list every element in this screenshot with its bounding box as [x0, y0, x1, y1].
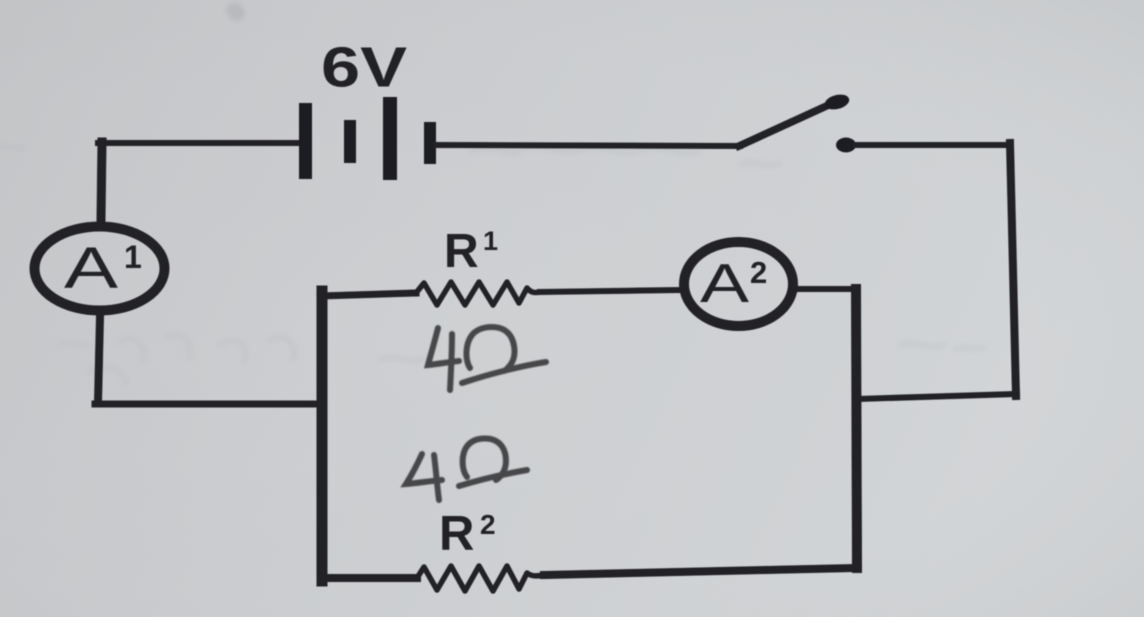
- wire A2 to right corner: [797, 286, 856, 292]
- wire right branch vertical: [1010, 143, 1016, 396]
- wire R1 to A2: [540, 290, 679, 292]
- switch S1 (open lever with knob and contact dot): [739, 92, 856, 152]
- svg-text:2: 2: [750, 255, 767, 290]
- wire A1 bottom vertical: [98, 316, 100, 402]
- wire battery to switch: [436, 145, 740, 146]
- svg-text:6V: 6V: [321, 36, 407, 100]
- wire top-left vertical (A1 top to top rail): [101, 142, 102, 219]
- svg-text:R: R: [444, 225, 479, 278]
- svg-text:1: 1: [483, 226, 498, 256]
- ammeter A2 circle: [684, 242, 793, 326]
- resistor R1 zigzag: [416, 282, 541, 305]
- svg-text:A: A: [700, 252, 749, 314]
- ammeter A1 circle: [35, 227, 165, 311]
- wire bottom row left segment: [322, 574, 417, 582]
- wire R2 to bottom-right corner: [544, 568, 857, 575]
- svg-text:1: 1: [124, 239, 142, 275]
- wire left vertical bus: [317, 291, 328, 581]
- value 4 ohm of R1 (handwritten): [428, 327, 546, 390]
- battery 6V plates: [299, 97, 436, 180]
- svg-text:A: A: [64, 236, 118, 301]
- wire right branch horizontal (to middle-right vertical): [857, 394, 1017, 399]
- wire middle-right vertical: [856, 289, 857, 568]
- wire top rail (corner to battery): [98, 140, 300, 146]
- faint bleed-through ghost marks (paper texture): [0, 7, 985, 385]
- value 4 ohm of R2 (handwritten): [406, 438, 527, 500]
- svg-text:2: 2: [480, 509, 496, 540]
- wire switch to top-right corner: [856, 142, 1011, 148]
- resistor R2 zigzag: [417, 566, 544, 591]
- wire bottom-left horizontal (A1 to left bus): [95, 401, 322, 408]
- wire R1 row left segment: [320, 293, 416, 296]
- svg-text:R: R: [439, 507, 474, 561]
